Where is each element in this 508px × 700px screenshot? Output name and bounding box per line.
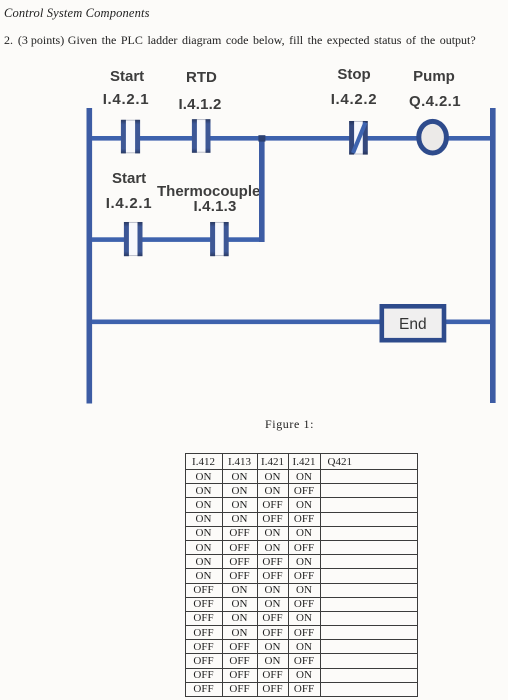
ladder diagram graphics — [0, 0, 508, 410]
contact Stop I.4.2.2 (NC with slash) — [349, 121, 368, 155]
label Q.4.2.1 — [408, 93, 462, 110]
rung 2 wire — [92, 237, 262, 242]
label I.4.2.1 (rung 2) — [105, 195, 153, 212]
End block — [382, 306, 444, 340]
document header: course title — [4, 6, 150, 21]
label Stop — [336, 66, 372, 83]
label I.4.2.1 (rung 1) — [102, 91, 150, 108]
label I.4.2.2 — [330, 91, 378, 108]
coil Pump Q.4.2.1 — [419, 121, 447, 153]
label Thermocouple — [157, 183, 258, 200]
label Start (rung 1) — [110, 68, 144, 85]
left power rail — [87, 108, 93, 404]
svg-text:End: End — [399, 316, 427, 333]
contact Start I.4.2.1 (rung 1, NO) — [121, 120, 140, 154]
right power rail — [490, 108, 496, 403]
rung 1 wire — [92, 136, 490, 141]
junction node (rung1/branch) — [258, 135, 265, 141]
rung 3 wire — [92, 320, 490, 325]
contact Start I.4.2.1 (rung 2, NO) — [124, 222, 143, 256]
label I.4.1.3 — [191, 198, 239, 215]
figure caption — [265, 417, 314, 432]
label Pump — [413, 68, 455, 85]
label RTD — [186, 69, 216, 86]
truth table — [185, 453, 418, 697]
contact Thermocouple I.4.1.3 (NO) — [210, 222, 229, 256]
question text — [4, 33, 13, 48]
label I.4.1.2 — [176, 96, 224, 113]
contact RTD I.4.1.2 (NO) — [192, 119, 211, 153]
label Start (rung 2) — [112, 170, 146, 187]
branch vertical wire — [259, 136, 265, 242]
